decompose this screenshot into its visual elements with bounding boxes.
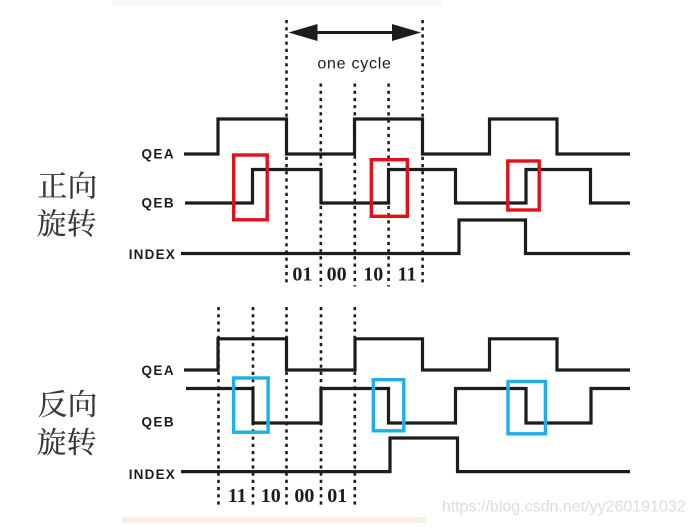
INDEX trace (reverse) [181, 438, 630, 472]
faint cropped text remnant at top [112, 0, 442, 6]
svg-text:one cycle: one cycle [317, 56, 391, 73]
svg-text:11: 11 [228, 485, 247, 507]
svg-text:11: 11 [398, 264, 417, 286]
label 正向 (forward) [39, 172, 67, 197]
red highlight box R1 (QEB rising edge) [234, 155, 268, 220]
dotted grid line T5 at x=422.6 [421, 20, 424, 287]
svg-text:00: 00 [327, 264, 347, 286]
cyan highlight box C2 (QEB falling edge) [373, 380, 404, 431]
one-cycle arrow left head [289, 24, 318, 41]
red highlight box R3 (QEB rising edge) [508, 161, 539, 210]
cyan highlight box C3 (QEB falling edge) [508, 382, 545, 434]
dotted grid line B4 at x=321 [320, 307, 323, 507]
QEA trace (forward) [184, 119, 630, 154]
QEB trace (forward) [185, 170, 630, 204]
dotted grid line B1 at x=218.5 [217, 307, 220, 507]
dotted grid line B2 at x=253 [252, 307, 255, 507]
dotted grid line T4 at x=388.6 [387, 84, 390, 287]
dotted grid line T2 at x=320.8 [319, 84, 322, 287]
one-cycle double arrow shaft [300, 31, 410, 34]
svg-text:01: 01 [327, 485, 347, 507]
svg-text:01: 01 [292, 264, 312, 286]
cyan highlight box C1 (QEB falling edge) [234, 378, 269, 432]
svg-text:10: 10 [363, 264, 383, 286]
svg-text:QEB: QEB [142, 195, 175, 210]
label 反向 (reverse) [39, 390, 67, 418]
svg-text:QEA: QEA [142, 363, 175, 378]
red highlight box R2 (QEB rising edge) [371, 160, 407, 217]
one-cycle arrow right head [392, 24, 421, 41]
label 旋转 (reverse, line 2) [37, 428, 65, 456]
svg-text:QEB: QEB [142, 414, 175, 429]
dotted grid line T1 at x=286.5 [285, 20, 288, 287]
faint cropped text remnant at bottom-left [122, 517, 427, 523]
dotted grid line T3 at x=354.8 [353, 84, 356, 287]
svg-text:10: 10 [261, 485, 281, 507]
dotted grid line B3 at x=286.5 [285, 307, 288, 507]
label 旋转 (forward, line 2) [37, 209, 65, 237]
dotted grid line B5 at x=354.8 [353, 307, 356, 507]
svg-text:INDEX: INDEX [129, 247, 176, 262]
QEA trace (reverse) [184, 339, 630, 370]
svg-text:00: 00 [294, 485, 314, 507]
svg-text:https://blog.csdn.net/yy260191: https://blog.csdn.net/yy260191032 [442, 498, 686, 515]
INDEX trace (forward) [181, 220, 630, 254]
svg-text:QEA: QEA [142, 146, 175, 161]
svg-text:INDEX: INDEX [129, 467, 176, 482]
QEB trace (reverse) [186, 389, 630, 424]
